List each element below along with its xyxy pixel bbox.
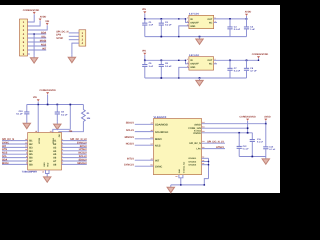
- svg-text:14: 14: [50, 130, 52, 133]
- svg-text:SCLLV: SCLLV: [126, 129, 134, 132]
- svg-text:0.1 uF: 0.1 uF: [165, 65, 172, 68]
- wire U1 B4 net LPN: [2, 150, 28, 152]
- supply flag CORE3V3/VDD (U2): [246, 119, 249, 121]
- ON/OFF tie wire U3: [186, 19, 189, 23]
- ground symbol U3: [199, 36, 201, 38]
- supply flag VIN (1.8V LDO input): [143, 53, 146, 55]
- ground symbol U4: [199, 77, 201, 79]
- svg-text:SPI_I2C_N_LV: SPI_I2C_N_LV: [207, 141, 224, 144]
- svg-text:0.1 uF: 0.1 uF: [16, 113, 23, 116]
- capacitor C4 1uF: [246, 18, 248, 20]
- resistor R1 10k pull-up on OE: [82, 105, 84, 110]
- supply flag VIN (3.3V LDO input): [143, 11, 146, 13]
- supply flag CORE3V3/VDD (1.8V LDO output): [257, 56, 260, 58]
- CORE3V3/VDD rail U1: [27, 104, 84, 106]
- connector J2 4-pin header: [79, 30, 86, 46]
- svg-text:SDA: SDA: [41, 31, 46, 34]
- svg-text:NCS: NCS: [41, 43, 47, 46]
- wire U2 AVDD pin to AVDD flag: [202, 123, 266, 125]
- wire pin4 net SDA: [28, 33, 47, 35]
- supply flag VIN (U1 VCCB): [37, 99, 40, 101]
- wire pin3 to VIN flag: [28, 25, 48, 30]
- ground symbol connector 1: [33, 55, 35, 57]
- capacitor C11 0.1uF: [251, 132, 253, 135]
- svg-text:MISO: MISO: [155, 138, 162, 141]
- capacitor C10 0.1uF: [26, 104, 28, 107]
- svg-text:SYNC: SYNC: [56, 37, 63, 40]
- svg-text:SDALV: SDALV: [126, 122, 135, 125]
- svg-text:NCS: NCS: [155, 144, 161, 147]
- svg-text:AVDD: AVDD: [40, 15, 47, 18]
- wire pin2 to AVDD flag: [28, 21, 41, 26]
- svg-text:SCL: SCL: [41, 35, 46, 38]
- supply flag CORE3V3/VDD (connector 1 pin 1): [33, 12, 36, 14]
- svg-text:MISOLV: MISOLV: [125, 136, 135, 139]
- svg-text:SCL/MCLK: SCL/MCLK: [155, 131, 169, 134]
- output rail 3.3V LDO net AVDD: [214, 18, 247, 20]
- svg-text:1.8V LDO: 1.8V LDO: [189, 54, 199, 57]
- wire J2 pin3 net SYNC: [69, 39, 79, 41]
- svg-text:AVDD: AVDD: [245, 11, 252, 14]
- supply flag VIN (connector 1 pin 3): [46, 23, 49, 25]
- ground symbol U2: [170, 185, 172, 187]
- svg-text:0.1 uF: 0.1 uF: [243, 148, 250, 151]
- svg-text:PAD: PAD: [47, 162, 50, 167]
- wire U2 IOVDD pin: [202, 132, 253, 134]
- regulator U3 3.3V LDO: [189, 15, 214, 28]
- wire pin5 net SCL: [28, 37, 47, 39]
- svg-text:SYNCLV: SYNCLV: [124, 164, 134, 167]
- wire CORE3V3/VDD pole to rail: [47, 94, 49, 104]
- wire U1 A1 net SPI_DC_N_LV: [62, 140, 87, 142]
- svg-text:LPNLV: LPNLV: [216, 146, 224, 149]
- wire U1 B6 net SCL: [2, 157, 28, 159]
- svg-text:GND: GND: [190, 66, 195, 69]
- svg-text:0.1 uF: 0.1 uF: [234, 28, 241, 31]
- svg-text:IOVDD3: IOVDD3: [188, 164, 197, 167]
- wire pin9 stub: [28, 53, 30, 55]
- ground symbol connector 2: [71, 55, 73, 57]
- wire J2 pin2 net LPN: [69, 35, 79, 37]
- svg-text:LPn: LPn: [196, 147, 201, 150]
- connector J1 9-pin header: [20, 19, 28, 56]
- capacitor C8 4.7uF: [246, 59, 248, 61]
- input rail 3.3V LDO: [145, 18, 186, 20]
- wire U1 B3 net INT: [2, 146, 28, 148]
- svg-text:1 uF: 1 uF: [149, 65, 154, 68]
- svg-text:IOVDD: IOVDD: [193, 132, 201, 135]
- wire U1 B8 net MOSI: [2, 163, 28, 165]
- svg-text:AVDD: AVDD: [264, 116, 271, 119]
- svg-text:IN: IN: [190, 18, 193, 21]
- svg-text:1: 1: [187, 20, 188, 23]
- wire J2 pin1 net SPI_DC_N: [69, 32, 79, 34]
- svg-text:GND: GND: [43, 162, 46, 167]
- svg-text:4.7 uF: 4.7 uF: [250, 69, 257, 72]
- ground rail 1.8V LDO: [145, 77, 247, 79]
- svg-text:1: 1: [187, 61, 188, 64]
- NC stub U4: [214, 63, 217, 65]
- svg-text:OUT: OUT: [207, 59, 212, 62]
- NC stub U3: [214, 21, 217, 23]
- svg-text:0.1 uF: 0.1 uF: [257, 141, 264, 144]
- wire U1 A6 net SCLLV: [62, 157, 87, 159]
- ground symbol U1: [46, 175, 48, 177]
- wire U2 pin NCS net NCSLV: [135, 144, 154, 146]
- wire U1 A3 net INTLV: [62, 146, 87, 148]
- wire pin8 net INT: [28, 49, 47, 51]
- svg-text:INT: INT: [42, 47, 47, 50]
- svg-text:0.1 uF: 0.1 uF: [61, 113, 68, 116]
- svg-text:CORE3V3/VDD: CORE3V3/VDD: [23, 9, 40, 12]
- svg-text:NCSLV: NCSLV: [126, 143, 135, 146]
- caps ground rail U2: [239, 156, 266, 158]
- svg-text:0.1 uF: 0.1 uF: [234, 69, 241, 72]
- svg-text:CORE3V3/VDD: CORE3V3/VDD: [39, 89, 56, 92]
- wire rail to VCCA pin: [53, 105, 71, 133]
- ON/OFF tie wire U4: [186, 60, 189, 64]
- wire U2 CORE_1V8 pin to CORE3V3/VDD flag: [202, 127, 247, 129]
- svg-text:1 uF: 1 uF: [149, 23, 154, 26]
- ground symbol C9: [56, 122, 58, 124]
- wire U2 LPn pin net LPNLV: [202, 148, 226, 150]
- IOVDD gnd stub wires U2: [202, 157, 209, 159]
- svg-text:CORE3V3/VDD: CORE3V3/VDD: [252, 53, 269, 56]
- GND pin wire U4 to ground rail: [179, 67, 189, 78]
- svg-text:INTLV: INTLV: [127, 158, 134, 161]
- wire U1 A8 net MISOLV: [62, 163, 87, 165]
- supply flag AVDD (connector 1 pin 2): [39, 19, 42, 21]
- svg-text:MISOLV: MISOLV: [77, 162, 87, 165]
- svg-text:TXB0108PWR: TXB0108PWR: [22, 171, 37, 174]
- supply flag CORE3V3/VDD (U1): [46, 92, 49, 94]
- svg-text:ON/OFF: ON/OFF: [190, 21, 199, 24]
- svg-text:MOSI: MOSI: [40, 39, 47, 42]
- ground junction wire U2: [171, 184, 205, 186]
- svg-text:VIN: VIN: [45, 20, 49, 23]
- svg-text:OUT: OUT: [207, 18, 212, 21]
- GND pin wire U3 to ground rail: [179, 26, 189, 37]
- capacitor C5 1uF: [144, 60, 146, 64]
- capacitor C1 1uF: [144, 19, 146, 23]
- wire U2 pin SDA/MOSI net SDALV: [135, 123, 154, 125]
- svg-text:AVDD: AVDD: [194, 123, 201, 126]
- svg-text:VCCB: VCCB: [38, 138, 41, 144]
- wire U1 A7 net SDALV: [62, 160, 87, 162]
- svg-text:MOSI: MOSI: [2, 162, 9, 165]
- capacitor C7 0.1uF: [229, 59, 231, 61]
- wire pin6 net MOSI: [28, 41, 47, 43]
- supply flag AVDD (3.3V LDO output): [245, 14, 248, 16]
- svg-text:VIN: VIN: [142, 50, 146, 53]
- svg-text:INT: INT: [155, 159, 160, 162]
- capacitor C12 0.1uF: [238, 132, 240, 134]
- wire U2 SPI_I2C_N pin net SPI_I2C_N_LV: [202, 142, 226, 144]
- IC U2 VL53L5CX time-of-flight sensor: [154, 119, 202, 175]
- svg-text:0.1 uF: 0.1 uF: [165, 23, 172, 26]
- wire U1 B7 net SDA: [2, 160, 28, 162]
- wire U1 A5 net NCSLV: [62, 153, 87, 155]
- svg-text:4.7 uF: 4.7 uF: [269, 148, 276, 151]
- input rail 1.8V LDO: [145, 59, 186, 61]
- GND pad wires U1: [46, 170, 50, 174]
- supply flag AVDD (U2): [264, 119, 267, 121]
- svg-text:NC: NC: [209, 63, 213, 66]
- ground symbol caps U2: [265, 157, 267, 159]
- wire U1 B5 net NCS: [2, 153, 28, 155]
- svg-text:2: 2: [187, 24, 188, 27]
- wire pin1 to CORE3V3/VDD flag: [28, 14, 35, 22]
- capacitor C3 0.1uF: [229, 18, 231, 20]
- svg-text:CORE3V3/VDD: CORE3V3/VDD: [239, 116, 256, 119]
- svg-text:GND: GND: [190, 25, 195, 28]
- svg-text:IOVDD1: IOVDD1: [188, 157, 197, 160]
- ground symbol C10: [26, 121, 28, 123]
- svg-text:18: 18: [35, 130, 37, 133]
- svg-text:SYNC: SYNC: [155, 165, 162, 168]
- output rail 1.8V LDO net CORE3V3/VDD: [214, 59, 259, 61]
- svg-text:IN: IN: [190, 59, 193, 62]
- svg-text:OE: OE: [69, 130, 73, 133]
- wire VIN to VCCB pin: [37, 102, 39, 133]
- svg-text:GND: GND: [178, 168, 181, 173]
- white schematic background: [0, 0, 280, 200]
- wire U2 pin SCL/MCLK net SCLLV: [135, 131, 154, 133]
- svg-text:2: 2: [187, 65, 188, 68]
- svg-text:1 uF: 1 uF: [250, 28, 255, 31]
- wire U2 pin INT net INTLV: [135, 159, 154, 161]
- wire R1 to OE pin: [59, 122, 84, 133]
- wire U1 A2 net SYNCLV: [62, 143, 87, 145]
- svg-text:SDA/MOSI: SDA/MOSI: [155, 124, 168, 127]
- capacitor C6 0.1uF: [160, 59, 162, 61]
- capacitor C9 0.1uF: [56, 104, 58, 106]
- wire VIN pole to input rail 2: [144, 55, 146, 60]
- wire U2 pin MISO net MISOLV: [135, 138, 154, 140]
- wire VIN pole to input rail: [144, 14, 146, 19]
- wire U2 pin SYNC net SYNCLV: [135, 165, 154, 167]
- svg-text:VL53L5CX: VL53L5CX: [154, 116, 167, 119]
- ground rail 3.3V LDO: [145, 36, 247, 38]
- svg-text:SPI_I2C_N: SPI_I2C_N: [189, 142, 201, 145]
- svg-text:3: 3: [187, 16, 188, 19]
- capacitor C13 4.7uF: [265, 123, 267, 125]
- wire U1 B2 net SYNC: [2, 143, 28, 145]
- wire U1 A4 net LPNLV: [62, 150, 87, 152]
- wire pin7 net NCS: [28, 45, 47, 47]
- wire J2 pin4 to ground: [72, 43, 79, 55]
- GND pad wires U2: [179, 175, 183, 178]
- svg-text:IOVDD2: IOVDD2: [188, 160, 197, 163]
- svg-text:VIN: VIN: [142, 8, 146, 11]
- wire U1 B1 net SPI_DC_N: [2, 140, 28, 142]
- capacitor C2 0.1uF: [160, 18, 162, 20]
- svg-text:ON/OFF: ON/OFF: [190, 63, 199, 66]
- svg-text:VIN: VIN: [33, 96, 37, 99]
- svg-text:3.3V LDO: 3.3V LDO: [189, 13, 199, 16]
- IC U1 TXB0108 level shifter: [28, 133, 62, 171]
- svg-text:3: 3: [187, 58, 188, 61]
- svg-text:NC: NC: [209, 21, 213, 24]
- regulator U4 1.8V LDO: [189, 57, 214, 70]
- ground wire connector 1: [33, 34, 35, 56]
